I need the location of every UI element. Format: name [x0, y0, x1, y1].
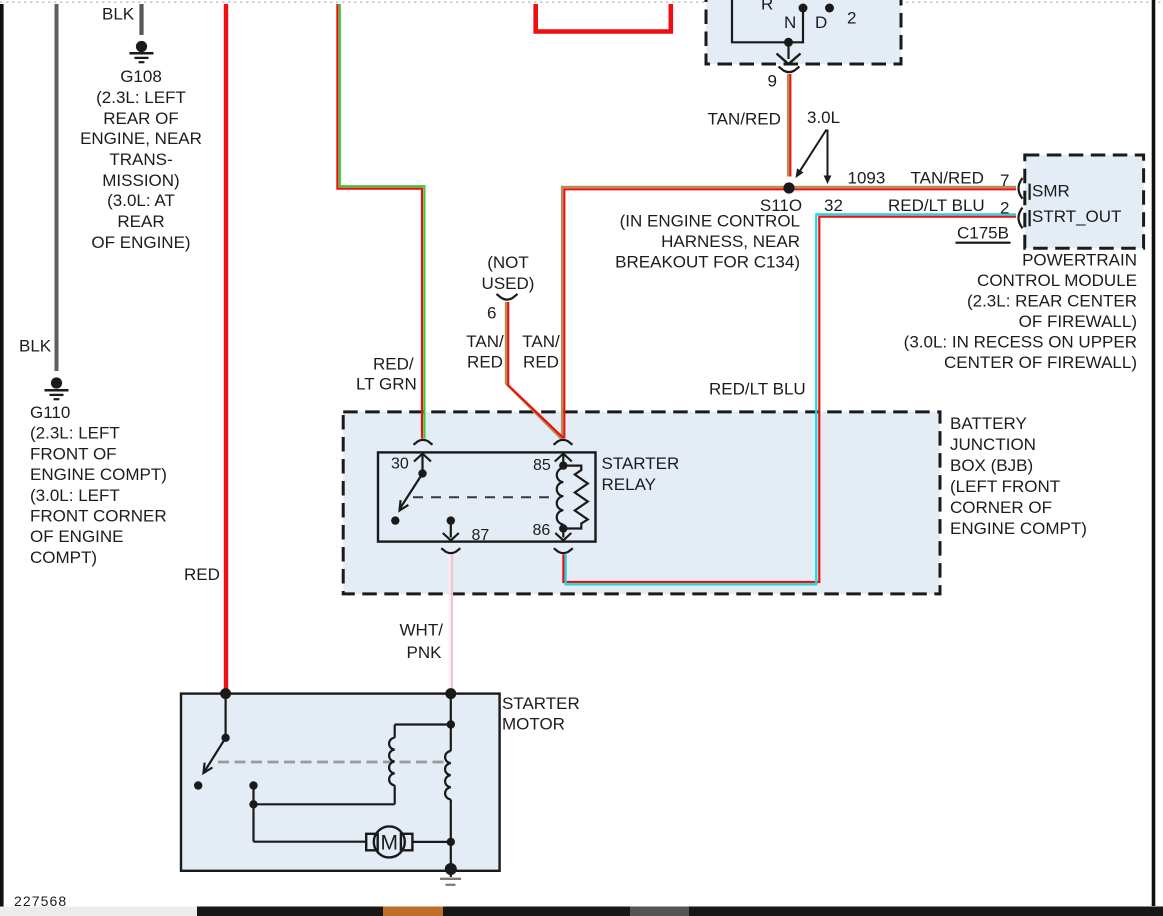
svg-text:BOX (BJB): BOX (BJB): [950, 456, 1033, 475]
svg-text:HARNESS, NEAR: HARNESS, NEAR: [661, 232, 800, 251]
svg-text:REAR OF: REAR OF: [103, 109, 179, 128]
svg-text:BLK: BLK: [19, 337, 52, 356]
svg-text:ENGINE COMPT): ENGINE COMPT): [950, 519, 1087, 538]
svg-text:RED/LT BLU: RED/LT BLU: [709, 380, 806, 399]
svg-text:6: 6: [487, 304, 496, 323]
svg-text:9: 9: [768, 72, 777, 91]
svg-text:BLK: BLK: [102, 5, 135, 24]
svg-text:SMR: SMR: [1032, 182, 1070, 201]
svg-text:2: 2: [1000, 199, 1009, 218]
svg-text:3.0L: 3.0L: [807, 108, 840, 127]
svg-text:(2.3L: REAR CENTER: (2.3L: REAR CENTER: [967, 292, 1137, 311]
svg-text:MISSION): MISSION): [102, 171, 179, 190]
svg-text:D: D: [815, 13, 827, 32]
svg-text:COMPT): COMPT): [30, 548, 97, 567]
svg-text:USED): USED): [482, 274, 535, 293]
svg-text:CENTER OF FIREWALL): CENTER OF FIREWALL): [944, 353, 1137, 372]
svg-text:BATTERY: BATTERY: [950, 414, 1027, 433]
svg-text:TAN/: TAN/: [522, 332, 560, 351]
svg-text:OF FIREWALL): OF FIREWALL): [1019, 312, 1137, 331]
svg-text:(2.3L: LEFT: (2.3L: LEFT: [30, 424, 120, 443]
svg-text:TRANS-: TRANS-: [109, 150, 172, 169]
svg-text:TAN/RED: TAN/RED: [911, 169, 984, 188]
svg-text:30: 30: [391, 456, 409, 473]
svg-text:RED: RED: [184, 565, 220, 584]
svg-text:PNK: PNK: [407, 643, 443, 662]
svg-text:REAR: REAR: [117, 212, 164, 231]
svg-text:86: 86: [533, 522, 551, 539]
svg-text:LT GRN: LT GRN: [356, 375, 417, 394]
svg-text:RED: RED: [523, 353, 559, 372]
svg-text:RED/LT BLU: RED/LT BLU: [888, 196, 985, 215]
svg-text:(LEFT FRONT: (LEFT FRONT: [950, 477, 1060, 496]
svg-text:(2.3L: LEFT: (2.3L: LEFT: [96, 88, 186, 107]
svg-text:85: 85: [533, 457, 551, 474]
svg-text:TAN/RED: TAN/RED: [708, 110, 781, 129]
svg-text:32: 32: [824, 196, 843, 215]
svg-text:G110: G110: [30, 403, 70, 422]
svg-text:7: 7: [1000, 171, 1009, 190]
svg-text:STARTER: STARTER: [502, 694, 580, 713]
svg-text:(IN ENGINE CONTROL: (IN ENGINE CONTROL: [620, 211, 800, 230]
svg-text:2: 2: [847, 9, 856, 28]
svg-text:RED/: RED/: [373, 355, 414, 374]
svg-text:WHT/: WHT/: [400, 621, 444, 640]
svg-text:N: N: [784, 13, 796, 32]
svg-text:OF ENGINE): OF ENGINE): [91, 233, 190, 252]
svg-text:POWERTRAIN: POWERTRAIN: [1022, 251, 1137, 270]
svg-text:(3.0L: AT: (3.0L: AT: [107, 191, 175, 210]
svg-text:ENGINE, NEAR: ENGINE, NEAR: [80, 129, 202, 148]
svg-text:STARTER: STARTER: [602, 454, 680, 473]
svg-text:87: 87: [472, 527, 490, 544]
svg-text:STRT_OUT: STRT_OUT: [1032, 207, 1121, 226]
svg-text:227568: 227568: [14, 893, 67, 909]
svg-text:(3.0L: LEFT: (3.0L: LEFT: [30, 486, 120, 505]
svg-text:FRONT CORNER: FRONT CORNER: [30, 507, 167, 526]
svg-text:ENGINE COMPT): ENGINE COMPT): [30, 465, 167, 484]
svg-text:MOTOR: MOTOR: [502, 715, 565, 734]
svg-text:G108: G108: [120, 67, 162, 86]
svg-text:R: R: [761, 0, 773, 14]
svg-text:RED: RED: [467, 353, 503, 372]
svg-text:TAN/: TAN/: [466, 332, 504, 351]
svg-text:(3.0L: IN RECESS ON UPPER: (3.0L: IN RECESS ON UPPER: [904, 333, 1137, 352]
svg-text:RELAY: RELAY: [602, 475, 657, 494]
svg-text:FRONT OF: FRONT OF: [30, 444, 117, 463]
svg-text:M: M: [381, 832, 399, 855]
svg-text:CORNER OF: CORNER OF: [950, 498, 1052, 517]
svg-text:BREAKOUT FOR C134): BREAKOUT FOR C134): [615, 253, 800, 272]
svg-text:1093: 1093: [848, 169, 886, 188]
svg-text:CONTROL MODULE: CONTROL MODULE: [977, 271, 1137, 290]
svg-text:(NOT: (NOT: [487, 253, 529, 272]
svg-text:C175B: C175B: [957, 224, 1009, 243]
svg-text:JUNCTION: JUNCTION: [950, 435, 1036, 454]
svg-text:OF ENGINE: OF ENGINE: [30, 527, 124, 546]
